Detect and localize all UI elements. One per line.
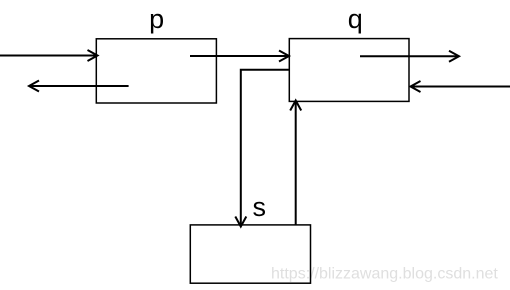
arrow s up to q bottom [290,101,301,225]
arrow out of p to left [29,81,129,92]
node box s [190,225,310,283]
arrow p to q [190,51,289,62]
arrow out of q to right [360,51,459,62]
node box p [96,39,216,103]
svg-text:p: p [149,4,164,34]
arrow into q from right [411,81,510,92]
wire elbow q-left down to s with arrow [235,70,288,227]
arrow into p from left [0,50,98,61]
node box q [289,39,409,102]
svg-text:https://blizzawang.blog.csdn.n: https://blizzawang.blog.csdn.net [271,266,498,283]
svg-text:s: s [253,192,267,222]
svg-text:q: q [348,4,363,34]
